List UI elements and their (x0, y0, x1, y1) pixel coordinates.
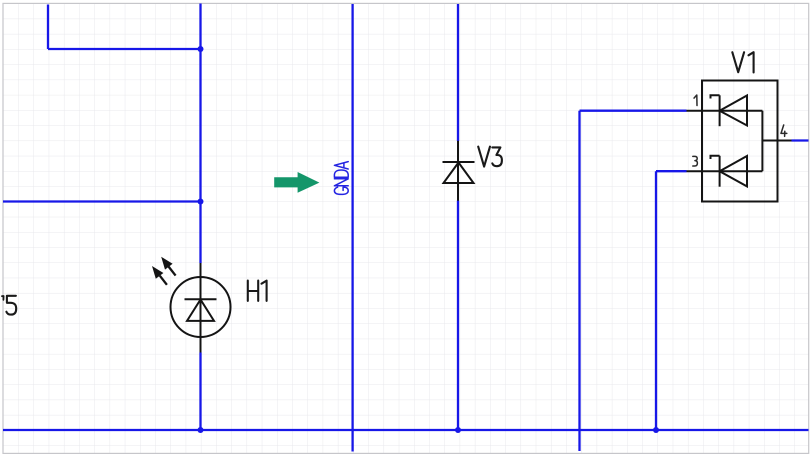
junction left (198, 199, 204, 205)
wire top-left vertical (47, 5, 49, 50)
label V3 (478, 147, 502, 167)
wire main vertical lower (H1 to bottom bus) (199, 353, 201, 431)
wire left horizontal (3, 200, 201, 202)
V1 diode top (pin 1) (687, 95, 763, 126)
wire pin1 vertical (578, 111, 580, 451)
label H1 (248, 281, 267, 301)
LED H1 light arrow b (152, 266, 167, 285)
wire V3 lower (457, 201, 459, 431)
wire top horizontal (48, 48, 201, 50)
diode V3 (443, 141, 475, 201)
wire pin4 (792, 139, 809, 141)
cursor arrow (green) (274, 172, 319, 193)
wire V3 upper (457, 4, 459, 141)
wire main vertical upper (net to H1) (199, 4, 201, 264)
diode array V1 box (702, 81, 778, 202)
junction bottom V3 (455, 427, 461, 433)
pin number 1 (694, 95, 697, 106)
junction bottom H1 (198, 427, 204, 433)
net label GNDA (334, 162, 348, 195)
wire GNDA vertical (351, 4, 353, 452)
junction top (198, 46, 204, 52)
label 5 (clipped) (6, 296, 16, 315)
clipped char fragment (2, 296, 4, 300)
wire bottom bus (3, 429, 809, 431)
wire pin1 horizontal (580, 110, 687, 112)
V1 pin 4 lead (762, 140, 791, 142)
pin number 3 (693, 156, 698, 166)
LED H1 (171, 263, 231, 353)
wire pin3 horizontal (656, 170, 687, 172)
label V1 (732, 52, 753, 72)
LED H1 light arrow a (161, 257, 175, 276)
junction bottom pin3 (653, 427, 659, 433)
pin number 4 (781, 125, 787, 136)
V1 internal connector (761, 111, 763, 172)
wire pin3 vertical (655, 171, 657, 430)
V1 diode bottom (pin 3) (687, 156, 763, 187)
